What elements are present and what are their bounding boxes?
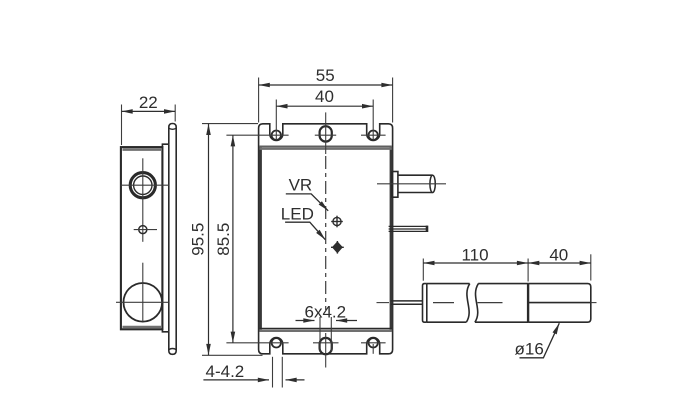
probe left end cap <box>423 284 427 323</box>
side view lower lens circle <box>124 283 163 322</box>
side view plate bottom inner arc <box>169 349 176 350</box>
front view body outline with notches <box>259 124 393 354</box>
dimension 4-4.2 leader right <box>286 379 305 381</box>
dimension 22 line <box>122 110 176 112</box>
side view mounting plate <box>169 124 176 355</box>
bottom mounting slot 6x4.2 <box>320 338 332 354</box>
cable centerline tick <box>377 302 390 304</box>
svg-text:VR: VR <box>289 176 313 195</box>
dimension 85.5 line <box>232 135 234 343</box>
probe head section <box>528 284 591 323</box>
front face top shaded band <box>260 147 392 150</box>
bottom slot crosshair horizontal <box>313 342 339 344</box>
bottom-right notch center tick <box>372 344 374 354</box>
top-right notch crosshair <box>361 134 386 136</box>
test pin <box>389 226 428 231</box>
probe head middle line <box>528 302 591 304</box>
side view bottom step <box>162 329 168 332</box>
probe centerline tick section2 <box>478 302 503 304</box>
side view lower circle crosshair vertical <box>142 263 144 322</box>
probe head centerline tick right <box>591 302 597 304</box>
top slot centerline vertical <box>325 112 327 154</box>
side view upper circle crosshair vertical <box>142 158 144 242</box>
top-left notch hole <box>272 131 281 140</box>
dimension 4-4.2 leader left <box>203 379 269 381</box>
dimension 22 extension right <box>174 105 176 122</box>
tube break S-curve left <box>466 284 470 323</box>
side view upper lens circle outer <box>130 173 155 198</box>
dimension 95.5 line <box>208 124 210 355</box>
dimension 40 (probe) extension right <box>590 254 592 280</box>
dimension 55 extension left <box>258 78 260 123</box>
side view top step <box>162 144 168 147</box>
cable from body <box>391 300 423 302</box>
dimension 6x4.2 arrow left <box>296 320 315 322</box>
dimension 55 extension right <box>392 78 394 123</box>
svg-text:55: 55 <box>316 66 335 85</box>
VR leader line <box>286 194 328 211</box>
dimension 40 extension right <box>372 100 374 141</box>
VR adjuster symbol <box>331 216 343 228</box>
dimension 40 line <box>276 105 373 107</box>
svg-text:6x4.2: 6x4.2 <box>305 302 347 321</box>
svg-text:40: 40 <box>315 87 334 106</box>
dimension 6x4.2 extension lines <box>319 317 321 352</box>
dimension 110 line <box>423 262 528 264</box>
top slot crosshair horizontal <box>315 134 336 136</box>
front face bottom edge line <box>260 327 392 329</box>
cable lower line <box>391 303 423 305</box>
front view dashed centerline <box>325 156 327 310</box>
bottom-left notch hole <box>272 338 281 347</box>
probe tube section 1 top <box>427 283 470 285</box>
side view upper lens circle inner <box>134 176 152 194</box>
bottom slot centerline vertical <box>325 333 327 368</box>
front face top edge line <box>260 145 392 147</box>
dimension 40 extension left <box>275 100 277 141</box>
probe centerline tick section1 <box>433 302 454 304</box>
front face right edge <box>390 147 393 332</box>
dimension 55 line <box>259 84 393 86</box>
side view plate left edge <box>168 144 170 332</box>
side view body outline <box>121 147 162 329</box>
test pin end cap <box>426 226 429 232</box>
dimension 40 (probe) line <box>528 262 591 264</box>
hole centerline through bottom notches (85.5 lower extension) <box>226 342 288 344</box>
LED indicator symbol <box>331 241 344 254</box>
top-right notch hole <box>369 131 378 140</box>
side view small hole <box>139 226 147 234</box>
svg-text:22: 22 <box>139 93 158 112</box>
svg-text:40: 40 <box>549 245 568 264</box>
LED leader line <box>285 222 325 240</box>
dimension 110/40 shared extension <box>527 259 529 282</box>
dimension 95.5 extension bottom <box>202 354 263 356</box>
side view lower circle crosshair horizontal <box>116 301 169 303</box>
probe tube section 2 bottom <box>475 321 528 323</box>
connector stem flange <box>392 172 398 198</box>
side view plate top inner arc <box>169 128 176 129</box>
side view bottom shaded edge <box>123 326 162 329</box>
dimension o16 leader <box>520 323 560 358</box>
dimension 22 extension left <box>121 105 123 146</box>
hole centerline through top notches (85.5 upper extension) <box>226 134 288 136</box>
dimension 95.5 extension top <box>202 123 258 125</box>
side view upper circle crosshair horizontal <box>121 184 169 186</box>
svg-text:ø16: ø16 <box>515 339 544 358</box>
connector stem cylinder <box>398 175 433 192</box>
svg-text:LED: LED <box>281 205 314 224</box>
top mounting slot 6x4.2 <box>320 126 332 141</box>
dimension 6x4.2 arrow right <box>336 320 357 322</box>
svg-text:4-4.2: 4-4.2 <box>206 362 245 381</box>
dimension 4-4.2 extension lines <box>272 357 274 388</box>
svg-text:110: 110 <box>461 245 488 264</box>
dimension 110 extension left <box>422 259 424 281</box>
probe divider line <box>527 284 529 323</box>
side view top shaded edge <box>123 148 162 151</box>
bottom-right notch hole <box>369 338 378 347</box>
connector stem end cap <box>430 175 435 192</box>
connector stem centerline <box>377 183 446 185</box>
svg-text:85.5: 85.5 <box>214 223 233 256</box>
side view small hole crosshair <box>134 229 157 231</box>
probe tube section 1 bottom <box>427 321 467 323</box>
front face left edge <box>259 147 262 332</box>
bottom-right notch crosshair <box>361 342 386 344</box>
probe cap inner line <box>426 284 428 323</box>
front face bottom shaded band <box>260 329 392 332</box>
svg-text:95.5: 95.5 <box>189 223 208 256</box>
tube break S-curve right <box>475 284 479 323</box>
probe tube section 2 top <box>478 283 528 285</box>
